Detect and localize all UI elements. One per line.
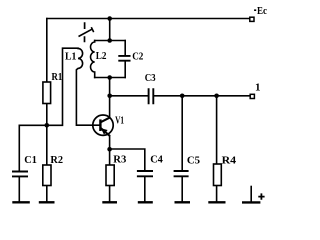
svg-text:C4: C4 — [150, 154, 163, 166]
svg-text:R2: R2 — [50, 154, 63, 166]
svg-text:R1: R1 — [52, 71, 63, 83]
svg-text:R3: R3 — [113, 154, 126, 166]
svg-text:1: 1 — [255, 82, 261, 94]
svg-text:V1: V1 — [115, 115, 124, 126]
svg-text:R4: R4 — [222, 154, 237, 166]
svg-text:L1: L1 — [65, 51, 76, 63]
svg-text:C5: C5 — [187, 154, 201, 166]
svg-text:Ec: Ec — [257, 5, 267, 17]
svg-text:C3: C3 — [145, 72, 156, 84]
svg-text:C2: C2 — [132, 51, 144, 63]
svg-text:L2: L2 — [96, 50, 107, 62]
svg-text:C1: C1 — [24, 154, 37, 166]
